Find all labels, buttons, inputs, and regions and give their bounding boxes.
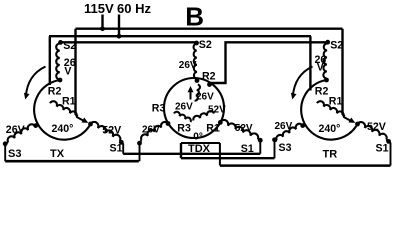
svg-text:R2: R2 [48, 86, 62, 98]
svg-text:S2: S2 [63, 40, 76, 52]
svg-text:26V: 26V [142, 124, 160, 135]
svg-text:TR: TR [323, 148, 338, 160]
svg-text:S1: S1 [110, 142, 123, 154]
svg-text:S1: S1 [376, 142, 389, 154]
svg-text:R1: R1 [329, 95, 343, 107]
svg-text:115V: 115V [84, 1, 114, 16]
svg-text:S3: S3 [8, 148, 21, 160]
svg-text:240°: 240° [52, 123, 74, 135]
svg-text:60 Hz: 60 Hz [117, 1, 151, 16]
svg-text:26V: 26V [196, 91, 214, 102]
svg-text:52V: 52V [235, 123, 253, 134]
svg-text:26V: 26V [6, 124, 25, 136]
svg-text:52V: 52V [367, 121, 386, 133]
svg-text:26V: 26V [275, 121, 293, 132]
svg-text:52V: 52V [102, 124, 121, 136]
svg-text:S2: S2 [330, 40, 343, 52]
svg-text:R1: R1 [62, 95, 76, 107]
svg-text:R3: R3 [177, 122, 191, 134]
svg-text:V: V [317, 62, 324, 74]
svg-text:R2: R2 [202, 71, 216, 83]
svg-text:240°: 240° [319, 123, 341, 135]
svg-text:26V: 26V [175, 101, 193, 112]
svg-text:S2: S2 [199, 39, 212, 51]
svg-text:V: V [64, 65, 71, 77]
svg-text:52V: 52V [208, 104, 226, 115]
svg-text:B: B [185, 2, 204, 32]
svg-text:S3: S3 [279, 142, 292, 154]
svg-text:0°: 0° [193, 132, 203, 143]
svg-text:TX: TX [50, 148, 65, 160]
svg-text:R3: R3 [152, 102, 166, 114]
svg-text:26V: 26V [179, 60, 197, 71]
svg-text:R1: R1 [206, 122, 220, 134]
svg-text:R2: R2 [315, 86, 329, 98]
